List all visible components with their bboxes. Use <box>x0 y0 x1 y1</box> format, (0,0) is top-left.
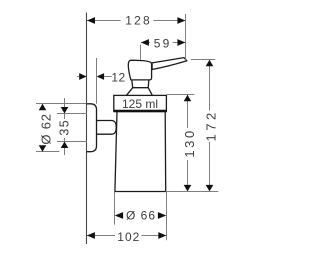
svg-text:172: 172 <box>203 109 218 141</box>
dimension 59 <box>141 37 186 60</box>
pump flare <box>126 88 152 96</box>
dimension 130 <box>166 95 197 192</box>
svg-text:59: 59 <box>154 37 172 51</box>
svg-text:35: 35 <box>57 119 71 136</box>
label 125 ml <box>122 97 158 111</box>
dimension 35 <box>57 98 87 155</box>
dimension 12 <box>77 58 125 104</box>
glass body <box>115 112 166 192</box>
svg-text:130: 130 <box>182 128 197 158</box>
svg-text:128: 128 <box>125 14 152 28</box>
holder band <box>114 95 167 111</box>
wall line <box>86 13 88 245</box>
svg-text:102: 102 <box>117 230 140 244</box>
dimension 102 <box>87 230 166 244</box>
pump head and spout <box>128 58 187 80</box>
dimension dia 66 <box>115 192 167 241</box>
bracket stem <box>97 121 117 135</box>
bottom extension line right <box>166 191 219 193</box>
dimension 128 <box>87 14 186 61</box>
svg-text:Ø 66: Ø 66 <box>126 208 156 222</box>
wall plate <box>87 104 97 152</box>
svg-text:125 ml: 125 ml <box>122 97 158 111</box>
svg-text:Ø 62: Ø 62 <box>38 113 53 144</box>
dimension dia 62 <box>36 104 87 152</box>
dimension 172 <box>191 60 219 192</box>
svg-text:12: 12 <box>111 70 125 84</box>
pump neck <box>132 80 149 87</box>
